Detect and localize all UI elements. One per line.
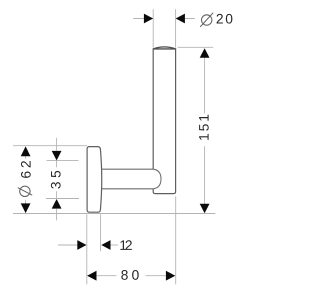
extension line rod top (151) [178, 46, 214, 48]
d20 value label [217, 14, 233, 24]
d20 diameter symbol [200, 13, 213, 27]
d20 arrow left [144, 14, 153, 24]
d62 value label [21, 161, 31, 178]
arm end fillet on rod [153, 169, 161, 189]
extension line plate left vertical (80/12) [86, 214, 88, 284]
35 arrow down (top) [52, 151, 62, 161]
35 value label [51, 171, 61, 189]
arm top edge [101, 168, 153, 170]
12 arrow left [101, 240, 110, 250]
80 arrow left [87, 271, 96, 281]
arm bottom edge [101, 188, 153, 190]
80 arrow right [166, 271, 175, 281]
80 value label [121, 270, 138, 280]
d62 diameter symbol [18, 186, 32, 196]
35 dimension line bottom leader [56, 209, 58, 220]
12 value label [120, 240, 132, 250]
d62 arrow down [21, 203, 31, 213]
extension line plate top (d62) [13, 145, 87, 147]
12 dimension line left leader [58, 244, 78, 246]
extension line plate right vertical (12) [100, 214, 102, 251]
151 value label [199, 115, 209, 140]
35 arrow up (bottom) [52, 199, 62, 209]
d20 arrow right [176, 14, 185, 24]
35 dimension line mid lower segment [56, 191, 58, 198]
d20 dimension line right leader [176, 18, 195, 20]
extension line plate bottom (151 and d62) [13, 213, 215, 215]
rod outline [153, 49, 175, 194]
d62 dimension line upper segment [25, 156, 27, 159]
12 arrow right [77, 240, 86, 250]
151 arrow up [200, 48, 210, 58]
extension line rod right (d20) [175, 9, 177, 47]
d20 dimension line left leader [133, 18, 153, 20]
151 dimension line upper segment [204, 58, 206, 114]
d62 arrow up [21, 146, 31, 156]
12 dimension line right leader [110, 244, 118, 246]
35 dimension line mid upper segment [56, 161, 58, 168]
extension line 35 upper [47, 160, 79, 162]
151 arrow down [200, 204, 210, 214]
extension line 35 lower [46, 198, 79, 200]
extension line rod right vertical (80) [175, 196, 177, 284]
151 dimension line lower segment [204, 146, 206, 204]
rod top cap [153, 47, 175, 49]
80 dimension line right leader [146, 275, 166, 277]
extension line rod left (d20) [152, 9, 154, 47]
d62 dimension line lower segment [25, 200, 27, 204]
35 dimension line top leader [56, 138, 58, 151]
80 dimension line left leader [97, 275, 117, 277]
wall plate (rose) side view [87, 147, 102, 213]
